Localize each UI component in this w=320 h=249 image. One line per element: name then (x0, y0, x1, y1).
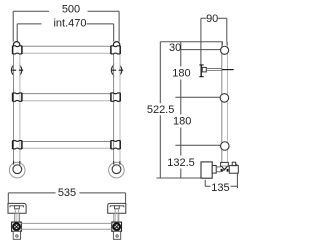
valve V (222, 166, 228, 170)
collar bottom-right (111, 141, 120, 150)
collar top-right (111, 46, 120, 54)
bottom bar (22, 142, 111, 149)
left bracket foot plate (13, 231, 20, 239)
side post top cap (222, 42, 227, 46)
svg-text:90: 90 (206, 13, 218, 25)
dimension int.470 (17, 24, 114, 42)
side circle middle bar (220, 94, 229, 103)
wall stay arm (206, 69, 222, 71)
side circle top bar (221, 46, 229, 54)
right post (114, 48, 120, 164)
left bracket pillar (15, 213, 20, 222)
left foot (9, 161, 25, 178)
dimension 500 (13, 11, 119, 41)
dimension 535 (8, 193, 125, 203)
svg-text:135: 135 (211, 182, 229, 194)
right bracket pillar (114, 213, 119, 222)
collar bottom-left (13, 141, 22, 150)
top bar (22, 46, 111, 53)
valve dark blobs (221, 169, 223, 172)
valve pipe (216, 167, 220, 172)
right floor bracket plate (108, 203, 126, 213)
wall elbow nub (236, 164, 238, 166)
right union ball (111, 63, 123, 78)
collar mid-right (111, 93, 120, 102)
dimension 90 (201, 18, 227, 65)
dimension 135 (205, 173, 237, 188)
right top ball cap (113, 42, 119, 48)
bottom reference line (157, 177, 201, 179)
tick top bar center (181, 49, 221, 51)
valve diagonal (222, 167, 227, 172)
svg-text:535: 535 (58, 187, 76, 199)
valve body (201, 162, 212, 178)
svg-text:180: 180 (172, 68, 190, 80)
svg-text:132.5: 132.5 (167, 157, 195, 169)
wall stay plate (199, 65, 203, 77)
tick bottom bar center (175, 144, 220, 146)
svg-text:500: 500 (62, 4, 80, 16)
collar top-left (13, 46, 22, 54)
right valve (plan) (112, 222, 122, 231)
tick middle bar center (175, 96, 220, 98)
svg-text:30: 30 (169, 42, 181, 54)
collar mid-left (13, 93, 22, 102)
wall stay axis through post (222, 69, 234, 71)
left union ball (11, 63, 23, 78)
dimension 522.5 line (159, 42, 161, 178)
wall elbow (229, 166, 238, 174)
right foot (109, 161, 125, 178)
valve nut (221, 162, 229, 166)
right bracket foot plate (113, 231, 120, 239)
left valve (plan) (12, 222, 22, 231)
middle bar (22, 94, 111, 101)
side circle bottom bar (221, 142, 230, 151)
svg-text:int.470: int.470 (53, 18, 86, 30)
left post (14, 48, 20, 164)
wall elbow cap (232, 162, 236, 165)
plan bar between valves (21, 223, 112, 229)
svg-text:180: 180 (173, 116, 191, 128)
svg-text:522.5: 522.5 (147, 104, 175, 116)
wall stay boss (202, 67, 206, 72)
left top ball cap (13, 42, 19, 48)
top reference line (160, 41, 223, 43)
side post (222, 42, 228, 164)
left floor bracket plate (8, 203, 26, 213)
valve neck (212, 166, 216, 174)
segment dimension line (180, 42, 182, 178)
